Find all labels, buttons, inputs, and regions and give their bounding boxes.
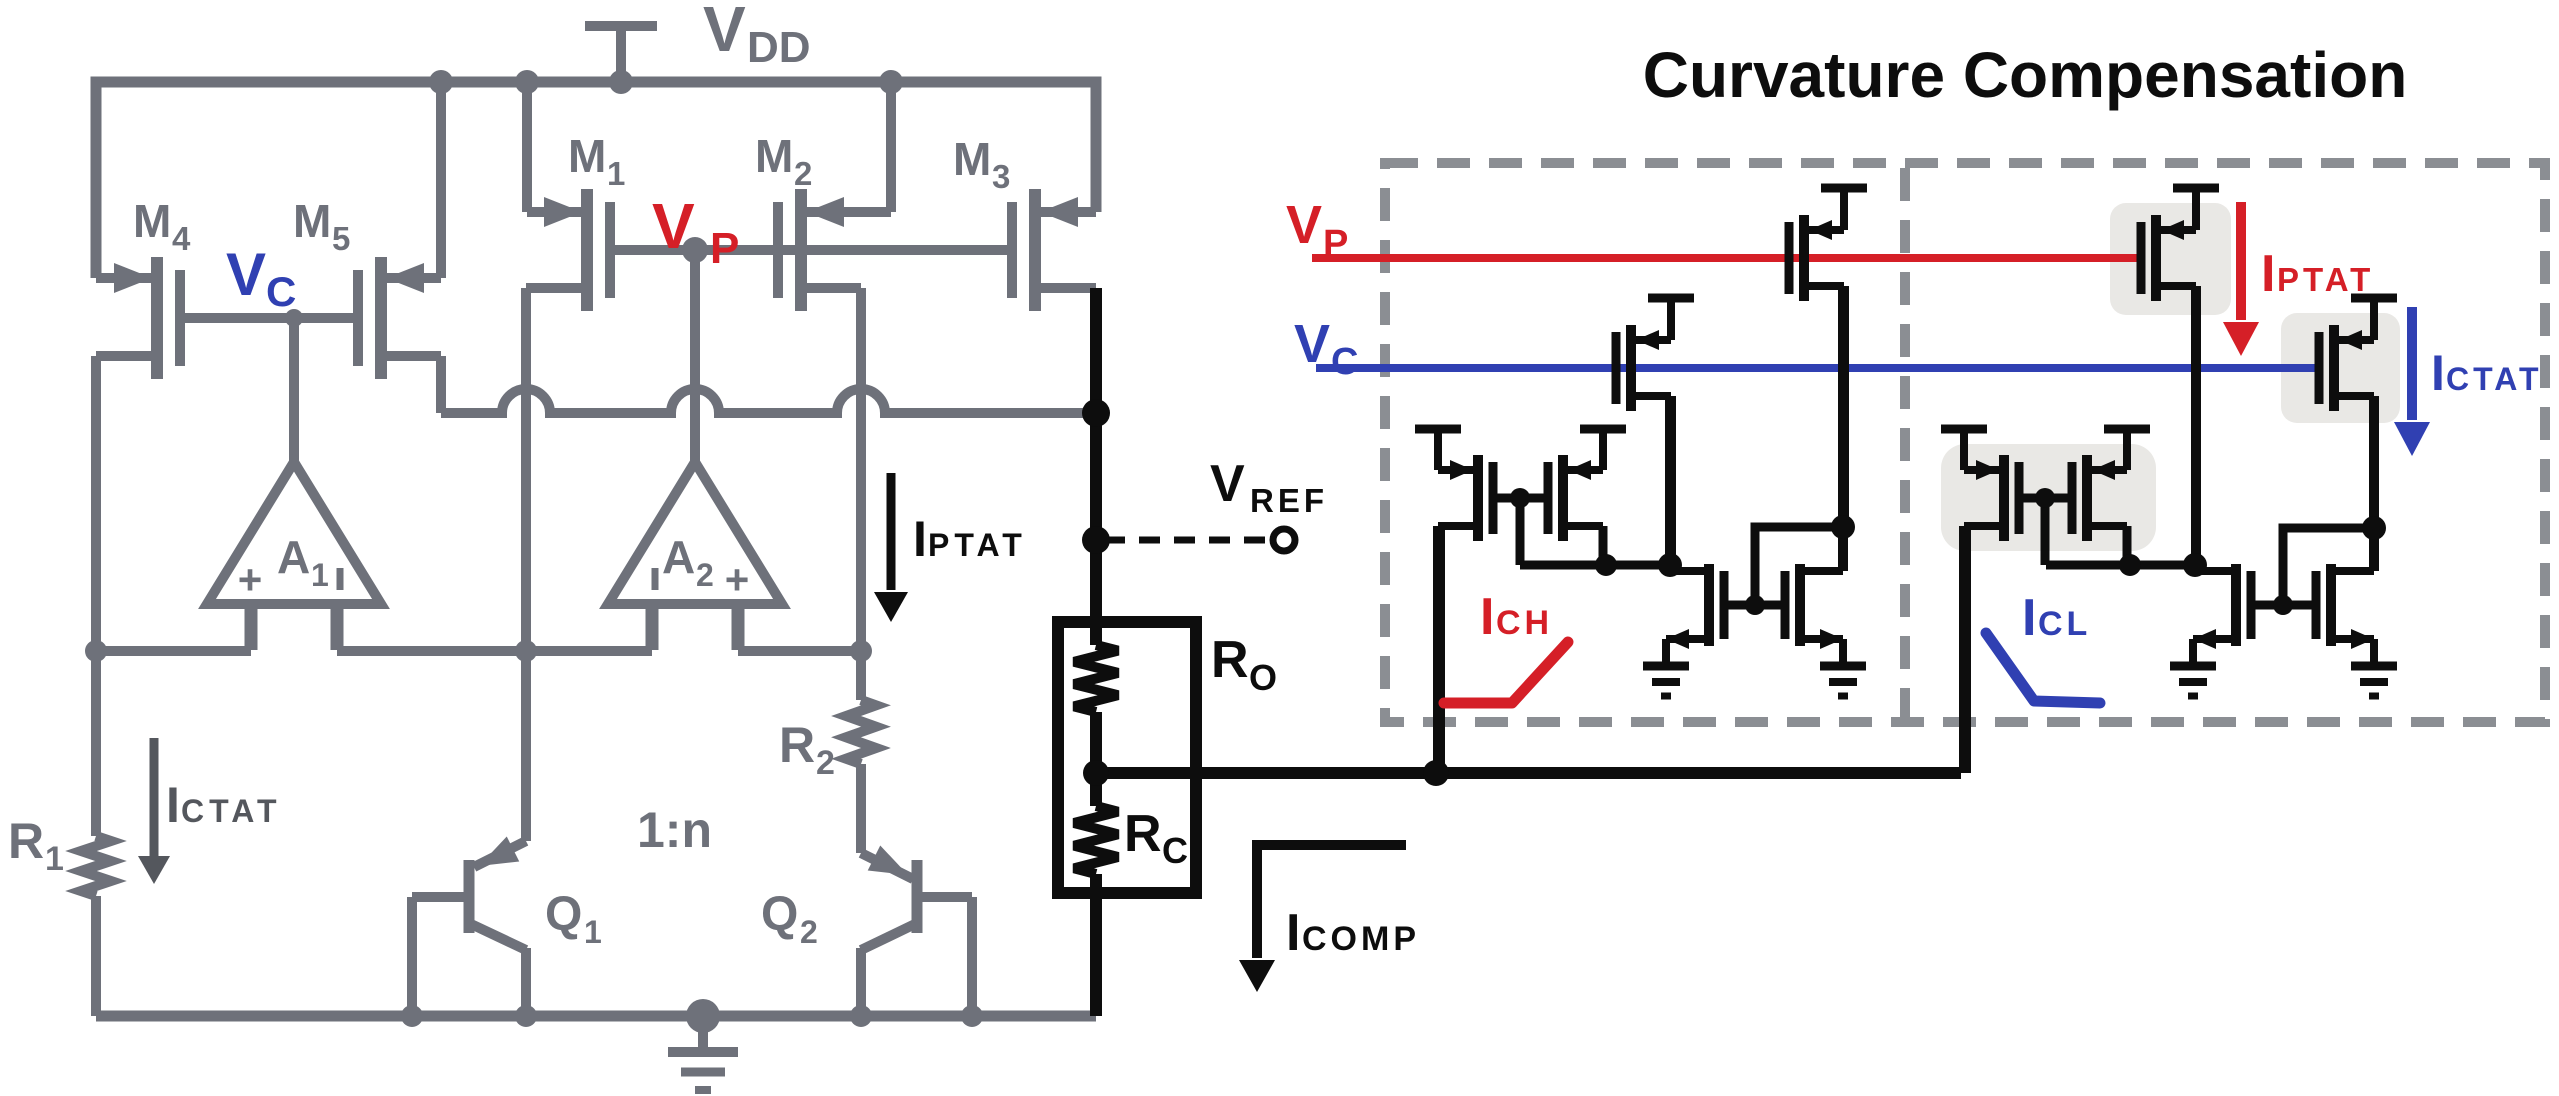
svg-text:3: 3	[992, 158, 1010, 195]
svg-text:2: 2	[816, 744, 835, 782]
svg-text:CH: CH	[1496, 604, 1553, 642]
svg-text:CTAT: CTAT	[181, 793, 282, 829]
svg-text:R: R	[779, 717, 815, 773]
svg-text:REF: REF	[1250, 482, 1328, 519]
svg-text:I: I	[1286, 904, 1300, 962]
svg-text:R: R	[1211, 631, 1249, 689]
svg-text:Q: Q	[761, 888, 798, 941]
svg-text:C: C	[1162, 830, 1188, 871]
svg-text:DD: DD	[747, 23, 811, 72]
svg-text:M: M	[293, 195, 331, 247]
svg-text:4: 4	[172, 220, 191, 257]
svg-text:2: 2	[696, 557, 714, 593]
svg-text:COMP: COMP	[1302, 920, 1420, 958]
svg-text:M: M	[953, 133, 991, 185]
svg-text:I: I	[1480, 588, 1494, 646]
svg-text:V: V	[226, 241, 266, 308]
svg-text:M: M	[133, 195, 171, 247]
svg-text:Q: Q	[545, 888, 582, 941]
svg-text:1: 1	[584, 914, 602, 950]
svg-text:1: 1	[311, 557, 329, 593]
svg-text:V: V	[652, 190, 695, 262]
svg-text:+: +	[238, 556, 263, 603]
svg-text:Curvature Compensation: Curvature Compensation	[1643, 39, 2408, 111]
svg-text:A: A	[662, 531, 695, 583]
svg-text:R: R	[1124, 805, 1162, 863]
svg-text:V: V	[703, 0, 746, 65]
svg-text:I: I	[166, 777, 180, 833]
svg-text:I: I	[2431, 345, 2445, 401]
svg-text:I: I	[2022, 589, 2036, 647]
svg-text:I: I	[913, 511, 927, 567]
svg-text:R: R	[8, 813, 44, 869]
svg-text:1: 1	[45, 840, 64, 878]
svg-text:5: 5	[332, 220, 350, 257]
svg-text:P: P	[1323, 223, 1348, 265]
svg-text:M: M	[568, 130, 606, 182]
svg-text:+: +	[725, 556, 750, 603]
svg-text:1: 1	[607, 155, 625, 192]
svg-text:A: A	[277, 531, 310, 583]
svg-text:2: 2	[800, 914, 818, 950]
svg-text:P: P	[710, 224, 739, 273]
svg-text:CL: CL	[2038, 605, 2091, 643]
svg-text:2: 2	[794, 155, 812, 192]
svg-text:CTAT: CTAT	[2446, 361, 2543, 397]
svg-text:V: V	[1286, 195, 1322, 255]
svg-text:M: M	[755, 130, 793, 182]
svg-text:I: I	[2261, 245, 2275, 303]
svg-text:C: C	[266, 268, 296, 315]
svg-text:O: O	[1249, 657, 1277, 698]
svg-text:C: C	[1331, 341, 1358, 383]
svg-text:1:n: 1:n	[637, 802, 712, 858]
svg-text:PTAT: PTAT	[2277, 261, 2374, 298]
svg-text:V: V	[1294, 314, 1330, 374]
svg-text:V: V	[1210, 455, 1245, 513]
svg-text:PTAT: PTAT	[928, 527, 1027, 563]
